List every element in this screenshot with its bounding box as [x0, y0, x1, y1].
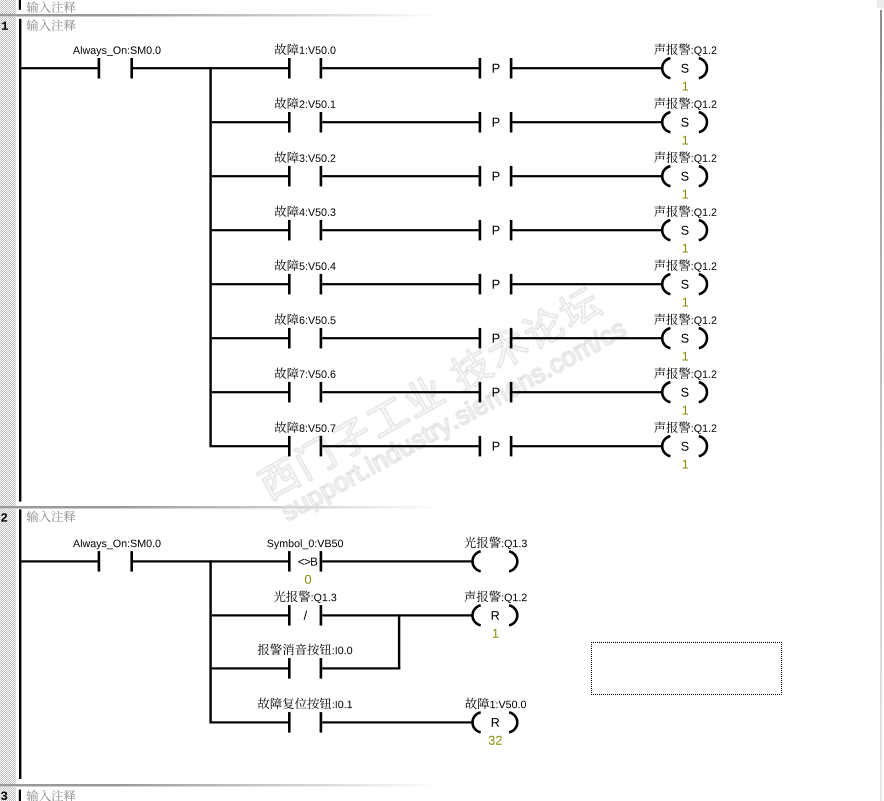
- label Symbol_0:VB50: [267, 539, 343, 549]
- network 1 number: [2, 22, 8, 30]
- label 故障2:V50.1: [275, 97, 336, 109]
- positive edge contact P (rung 6): [479, 328, 482, 349]
- value 1 under S coil (rung 6): [683, 352, 689, 361]
- set coil S 声报警:Q1.2 (rung 5): [662, 274, 670, 294]
- label 故障1:V50.0 (reset coil): [465, 698, 526, 710]
- contact 故障8:V50.7 (rung 8): [288, 436, 291, 457]
- contact 故障4:V50.3 (rung 4): [288, 220, 291, 241]
- wire contact to reset coil 故障1 (network 2 rung 4): [322, 721, 473, 723]
- label 故障3:V50.2: [275, 151, 336, 163]
- wire contact to P box (rung 8): [322, 445, 478, 447]
- wire contact to P box (rung 2): [322, 121, 478, 123]
- wire contact to P box (rung 3): [322, 175, 478, 177]
- value 1 under S coil (rung 3): [683, 190, 689, 199]
- set coil S 声报警:Q1.2 (rung 2): [662, 112, 670, 132]
- contact 故障复位按钮:I0.1: [288, 712, 291, 733]
- label 声报警:Q1.2 (reset coil): [464, 591, 526, 603]
- label 声报警:Q1.2 (rung 4): [654, 206, 716, 218]
- network 3 number: [1, 792, 7, 801]
- value 1 under S coil (rung 8): [683, 460, 689, 469]
- branch vertical wire (network 1): [209, 67, 211, 447]
- left margin dithered strip: [0, 0, 16, 801]
- positive edge contact P (rung 1): [479, 58, 482, 79]
- network separator 1: [0, 14, 884, 17]
- value 0 under compare contact: [305, 575, 311, 584]
- set coil S 声报警:Q1.2 (rung 4): [662, 220, 670, 240]
- wire NC contact to reset coil (network 2 rung 2): [322, 614, 473, 616]
- label Always_On:SM0.0 (network 2): [73, 539, 161, 549]
- wire contact to P box (rung 7): [322, 391, 478, 393]
- wire branch to contact 故障8 (rung 8): [212, 445, 288, 447]
- wire branch to contact 故障2 (rung 2): [212, 121, 288, 123]
- value 32 under reset coil: [489, 736, 502, 745]
- set coil S 声报警:Q1.2 (rung 7): [662, 382, 670, 402]
- contact 故障3:V50.2 (rung 3): [288, 166, 291, 187]
- value 1 under S coil (rung 1): [683, 82, 689, 91]
- wire contact to branch junction (network 1): [133, 67, 288, 69]
- set coil S 声报警:Q1.2 (rung 1): [662, 58, 670, 78]
- value 1 under reset coil: [493, 629, 499, 638]
- wire branch to contact 故障4 (rung 4): [212, 229, 288, 231]
- network 0 comment text 输入注释: [27, 1, 76, 13]
- contact 故障6:V50.5 (rung 6): [288, 328, 291, 349]
- positive edge contact P (rung 4): [479, 220, 482, 241]
- label Always_On:SM0.0 (network 1): [73, 46, 161, 56]
- parallel join vertical wire (network 2): [398, 614, 400, 669]
- wire P box to coil (rung 3): [512, 175, 663, 177]
- wire branch to contact 报警消音按钮 (network 2 rung 3): [212, 667, 288, 669]
- positive edge contact P (rung 7): [479, 382, 482, 403]
- label 声报警:Q1.2 (rung 7): [654, 368, 716, 380]
- wire contact to compare box (network 2 rung 1): [133, 560, 288, 562]
- label 声报警:Q1.2 (rung 3): [654, 152, 716, 164]
- label 声报警:Q1.2 (rung 5): [654, 260, 716, 272]
- wire branch to contact 光报警 (network 2 rung 2): [212, 614, 288, 616]
- reset coil R 声报警:Q1.2: [473, 605, 481, 625]
- NC contact 光报警:Q1.3 (network 2 rung 2): [288, 605, 291, 626]
- network 3 comment text 输入注释: [27, 790, 76, 801]
- wire contact to P box (rung 5): [322, 283, 478, 285]
- label 故障1:V50.0: [275, 43, 336, 55]
- contact 故障1:V50.0 (rung 1): [288, 58, 291, 79]
- positive edge contact P (rung 8): [479, 436, 482, 457]
- value 1 under S coil (rung 5): [683, 298, 689, 307]
- label 故障6:V50.5: [275, 313, 336, 325]
- wire contact to P box (rung 6): [322, 337, 478, 339]
- wire rail to contact Always_On (network 1): [21, 67, 97, 69]
- set coil S 声报警:Q1.2 (rung 8): [662, 436, 670, 456]
- network 2 number: [1, 513, 7, 521]
- top-right corner block: [877, 0, 884, 8]
- label 声报警:Q1.2 (rung 6): [654, 314, 716, 326]
- contact 报警消音按钮:I0.0: [288, 658, 291, 679]
- output coil 光报警:Q1.3: [473, 551, 481, 571]
- label 故障5:V50.4: [275, 259, 336, 271]
- wire P box to coil (rung 8): [512, 445, 663, 447]
- label 光报警:Q1.3 (coil): [464, 537, 527, 549]
- contact Always_On:SM0.0 (network 1): [98, 58, 101, 79]
- contact Always_On:SM0.0 (network 2): [98, 551, 101, 572]
- label 声报警:Q1.2 (rung 8): [654, 422, 716, 434]
- label 故障8:V50.7: [275, 421, 336, 433]
- positive edge contact P (rung 3): [479, 166, 482, 187]
- label 声报警:Q1.2 (rung 1): [654, 44, 716, 56]
- right window border: [880, 10, 882, 801]
- value 1 under S coil (rung 4): [683, 244, 689, 253]
- wire P box to coil (rung 7): [512, 391, 663, 393]
- network separator 2: [0, 506, 884, 509]
- contact 故障2:V50.1 (rung 2): [288, 112, 291, 133]
- wire branch to contact 故障7 (rung 7): [212, 391, 288, 393]
- wire P box to coil (rung 2): [512, 121, 663, 123]
- wire contact to P box (rung 1): [322, 67, 478, 69]
- value 1 under S coil (rung 7): [683, 406, 689, 415]
- wire P box to coil (rung 6): [512, 337, 663, 339]
- wire branch to contact 故障5 (rung 5): [212, 283, 288, 285]
- wire branch to contact 故障6 (rung 6): [212, 337, 288, 339]
- label 报警消音按钮:I0.0: [258, 644, 352, 655]
- label 声报警:Q1.2 (rung 2): [654, 98, 716, 110]
- operand selection dashed box: [591, 642, 782, 695]
- wire branch to contact 故障3 (rung 3): [212, 175, 288, 177]
- wire compare to coil 光报警 (network 2 rung 1): [322, 560, 473, 562]
- label 故障4:V50.3: [275, 205, 336, 217]
- compare contact Symbol_0:VB50 <>B (network 2 rung 1): [288, 551, 291, 572]
- positive edge contact P (rung 5): [479, 274, 482, 295]
- set coil S 声报警:Q1.2 (rung 6): [662, 328, 670, 348]
- wire branch to contact 故障复位按钮 (network 2 rung 4): [212, 721, 288, 723]
- network 2 left power rail: [19, 509, 21, 779]
- set coil S 声报警:Q1.2 (rung 3): [662, 166, 670, 186]
- network separator 3: [0, 784, 884, 787]
- wire P box to coil (rung 5): [512, 283, 663, 285]
- network 2 comment text 输入注释: [27, 511, 76, 523]
- wire contact to P box (rung 4): [322, 229, 478, 231]
- contact 故障7:V50.6 (rung 7): [288, 382, 291, 403]
- network 1 left power rail: [19, 19, 21, 502]
- wire rail to contact Always_On (network 2): [21, 560, 97, 562]
- label 故障复位按钮:I0.1: [258, 698, 352, 710]
- label 故障7:V50.6: [275, 367, 336, 379]
- label 光报警:Q1.3 (contact): [274, 591, 337, 603]
- contact 故障5:V50.4 (rung 5): [288, 274, 291, 295]
- positive edge contact P (rung 2): [479, 112, 482, 133]
- network 1 comment text 输入注释: [27, 19, 76, 31]
- network 0 comment tick: [19, 0, 21, 10]
- wire P box to coil (rung 1): [512, 67, 663, 69]
- branch vertical wire (network 2): [209, 560, 211, 723]
- wire contact to parallel join (network 2 rung 3): [322, 667, 400, 669]
- value 1 under S coil (rung 2): [683, 136, 689, 145]
- network 3 comment tick: [19, 790, 21, 801]
- reset coil R 故障1:V50.0: [473, 712, 481, 732]
- wire P box to coil (rung 4): [512, 229, 663, 231]
